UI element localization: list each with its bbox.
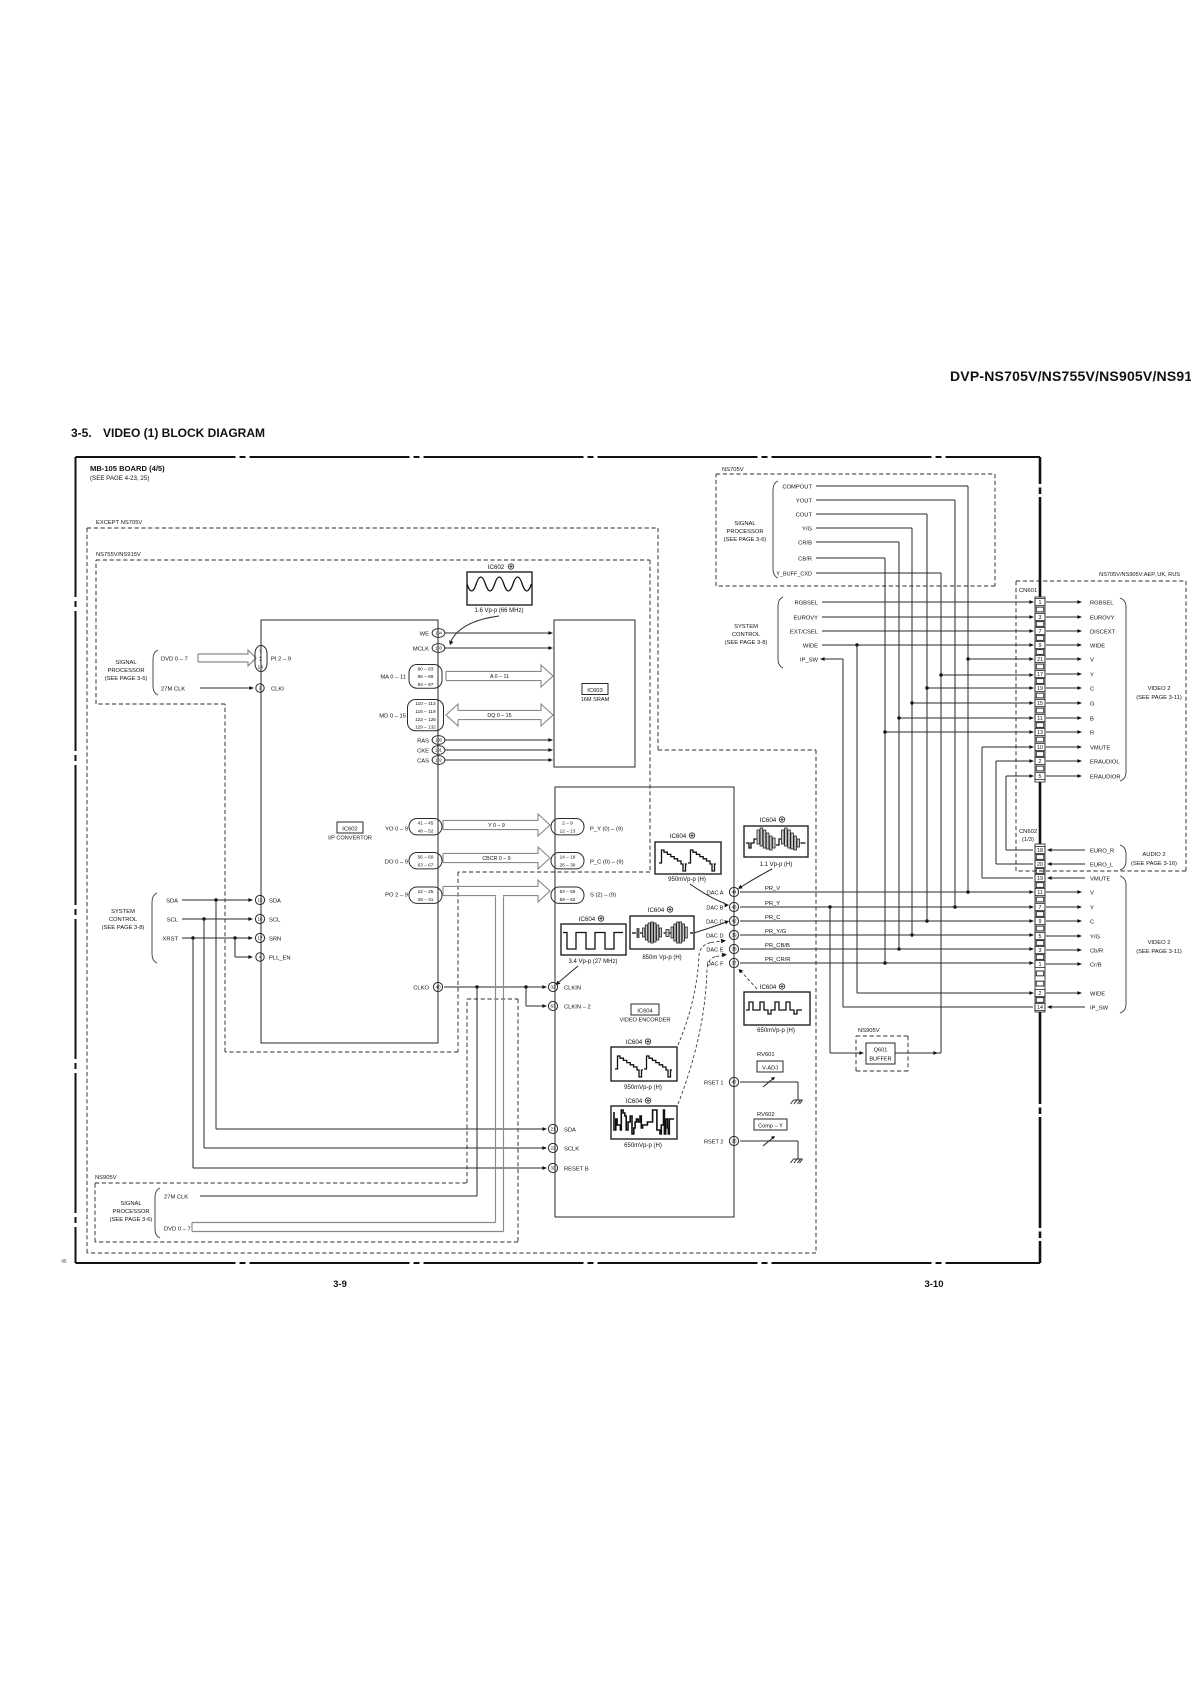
- svg-text:R: R: [1090, 731, 1094, 737]
- svg-text:12 – 13: 12 – 13: [560, 829, 576, 834]
- svg-text:26 – 30: 26 – 30: [560, 863, 576, 868]
- svg-text:G: G: [1090, 702, 1095, 708]
- svg-text:33: 33: [550, 1166, 556, 1171]
- svg-text:2: 2: [1039, 759, 1042, 765]
- svg-text:(SEE PAGE 3-6): (SEE PAGE 3-6): [110, 1217, 153, 1223]
- svg-text:86 – 89: 86 – 89: [418, 674, 434, 679]
- svg-text:7: 7: [1039, 629, 1042, 635]
- svg-text:IC604: IC604: [648, 907, 665, 914]
- svg-text:SDA: SDA: [269, 899, 281, 905]
- svg-text:SDA: SDA: [166, 899, 178, 905]
- svg-text:17: 17: [1037, 672, 1043, 678]
- svg-text:7: 7: [1039, 905, 1042, 911]
- svg-text:(1/3): (1/3): [1022, 837, 1034, 843]
- svg-text:(SEE PAGE 3-8): (SEE PAGE 3-8): [725, 640, 768, 646]
- svg-text:103: 103: [435, 646, 443, 651]
- svg-text:RGBSEL: RGBSEL: [794, 601, 818, 607]
- svg-text:DAC D: DAC D: [706, 934, 723, 940]
- svg-text:COMPOUT: COMPOUT: [782, 485, 812, 491]
- svg-text:58 – 62: 58 – 62: [560, 897, 576, 902]
- svg-text:CLKIN – 2: CLKIN – 2: [564, 1005, 591, 1011]
- svg-text:104: 104: [435, 631, 443, 636]
- svg-text:DISCEXT: DISCEXT: [1090, 630, 1116, 636]
- svg-text:PI 2 – 9: PI 2 – 9: [271, 657, 291, 663]
- svg-text:EXT/CSEL: EXT/CSEL: [790, 630, 819, 636]
- svg-text:SYSTEM: SYSTEM: [111, 909, 135, 915]
- svg-text:(SEE PAGE 3-11): (SEE PAGE 3-11): [1136, 949, 1182, 955]
- svg-text:PROCESSOR: PROCESSOR: [112, 1209, 149, 1215]
- svg-text:7: 7: [259, 649, 262, 655]
- svg-text:BUFFER: BUFFER: [869, 1057, 891, 1063]
- svg-text:3.4 Vp-p (27 MHz): 3.4 Vp-p (27 MHz): [568, 959, 617, 965]
- svg-text:DVD 0 – 7: DVD 0 – 7: [164, 1227, 191, 1233]
- svg-text:CLKIN: CLKIN: [564, 986, 581, 992]
- svg-text:21: 21: [1037, 657, 1043, 663]
- svg-text:110 – 113: 110 – 113: [415, 701, 436, 706]
- svg-text:Y_BUFF_CXD: Y_BUFF_CXD: [776, 572, 812, 578]
- svg-text:CAS: CAS: [417, 759, 429, 765]
- svg-text:B: B: [1090, 717, 1094, 723]
- svg-text:40: 40: [435, 985, 441, 990]
- svg-text:VMUTE: VMUTE: [1090, 877, 1110, 883]
- svg-text:14: 14: [1037, 1005, 1043, 1011]
- svg-text:S (2) – (9): S (2) – (9): [590, 893, 616, 899]
- svg-text:C: C: [1090, 687, 1094, 693]
- svg-text:CN601: CN601: [1019, 588, 1037, 594]
- svg-text:PROCESSOR: PROCESSOR: [726, 529, 763, 535]
- svg-text:(SEE PAGE 3-16): (SEE PAGE 3-16): [1131, 861, 1177, 867]
- svg-text:COUT: COUT: [796, 513, 813, 519]
- svg-text:2 – 9: 2 – 9: [562, 820, 573, 825]
- svg-text:100: 100: [435, 738, 443, 743]
- svg-text:44: 44: [731, 890, 737, 895]
- svg-text:101: 101: [435, 748, 443, 753]
- svg-text:19: 19: [1037, 686, 1043, 692]
- svg-text:13: 13: [1037, 730, 1043, 736]
- svg-text:DVP-NS705V/NS755V/NS905V/NS91: DVP-NS705V/NS755V/NS905V/NS91: [950, 368, 1191, 384]
- svg-text:1: 1: [1039, 962, 1042, 968]
- svg-text:CLKI: CLKI: [271, 687, 284, 693]
- svg-text:WIDE: WIDE: [1090, 992, 1105, 998]
- svg-text:1.1 Vp-p (H): 1.1 Vp-p (H): [760, 862, 793, 868]
- svg-text:V-ADJ: V-ADJ: [762, 1066, 778, 1072]
- svg-text:20: 20: [1037, 862, 1043, 868]
- svg-text:9: 9: [1039, 643, 1042, 649]
- svg-text:16: 16: [257, 917, 263, 922]
- svg-text:5: 5: [1039, 774, 1042, 780]
- svg-text:Y/G: Y/G: [802, 527, 812, 533]
- svg-text:63 – 67: 63 – 67: [418, 863, 434, 868]
- svg-text:32: 32: [550, 985, 556, 990]
- svg-text:CR/B: CR/B: [798, 541, 812, 547]
- svg-text:14 – 18: 14 – 18: [560, 854, 576, 859]
- svg-text:650mVp-p (H): 650mVp-p (H): [757, 1028, 795, 1034]
- svg-text:129 – 132: 129 – 132: [415, 725, 436, 730]
- svg-text:(SEE PAGE 4-23, 25): (SEE PAGE 4-23, 25): [90, 475, 149, 482]
- svg-text:Y: Y: [1090, 673, 1094, 679]
- svg-text:V: V: [1090, 658, 1094, 664]
- svg-text:850m Vp-p (H): 850m Vp-p (H): [642, 955, 681, 961]
- svg-text:IC602: IC602: [488, 564, 505, 571]
- svg-text:18: 18: [1037, 848, 1043, 854]
- svg-text:1: 1: [1039, 600, 1042, 606]
- svg-text:28 – 31: 28 – 31: [418, 897, 434, 902]
- svg-text:SCL: SCL: [269, 918, 281, 924]
- svg-text:PO 2 – 9: PO 2 – 9: [385, 893, 408, 899]
- svg-text:IC604: IC604: [626, 1039, 643, 1046]
- svg-text:11: 11: [1037, 890, 1043, 896]
- svg-text:05: 05: [62, 1259, 68, 1264]
- svg-text:C: C: [1090, 920, 1094, 926]
- svg-text:41 – 45: 41 – 45: [418, 820, 434, 825]
- svg-text:VIDEO 2: VIDEO 2: [1148, 940, 1171, 946]
- svg-text:19: 19: [1037, 876, 1043, 882]
- svg-text:94 – 97: 94 – 97: [418, 682, 434, 687]
- svg-text:CBCR 0 – 9: CBCR 0 – 9: [482, 856, 510, 862]
- svg-text:EUROVY: EUROVY: [794, 616, 819, 622]
- svg-text:2: 2: [259, 686, 262, 691]
- svg-text:11: 11: [1037, 716, 1043, 722]
- svg-text:RV601: RV601: [757, 1052, 775, 1058]
- svg-text:NS705V: NS705V: [722, 467, 744, 473]
- svg-text:48 – 52: 48 – 52: [418, 829, 434, 834]
- svg-text:Cr/B: Cr/B: [1090, 963, 1102, 969]
- svg-text:22 – 25: 22 – 25: [418, 889, 434, 894]
- svg-text:PR_CB/B: PR_CB/B: [765, 943, 790, 949]
- svg-text:950mVp-p (H): 950mVp-p (H): [668, 877, 706, 883]
- svg-text:DAC C: DAC C: [706, 920, 723, 926]
- svg-text:PR_Y/G: PR_Y/G: [765, 929, 787, 935]
- svg-text:NS705V/NS905V:AEP, UK, RUS: NS705V/NS905V:AEP, UK, RUS: [1099, 572, 1180, 578]
- svg-text:4: 4: [259, 955, 262, 960]
- svg-text:EURO_L: EURO_L: [1090, 863, 1114, 869]
- svg-text:Y 0 – 9: Y 0 – 9: [488, 823, 505, 829]
- svg-text:3-10: 3-10: [924, 1279, 943, 1290]
- svg-text:NS755V/NS915V: NS755V/NS915V: [96, 552, 141, 558]
- svg-text:EXCEPT NS705V: EXCEPT NS705V: [96, 520, 142, 526]
- svg-text:VMUTE: VMUTE: [1090, 746, 1110, 752]
- svg-text:SYSTEM: SYSTEM: [734, 624, 758, 630]
- svg-text:IC604: IC604: [760, 984, 777, 991]
- svg-text:IC604: IC604: [760, 817, 777, 824]
- svg-text:I/P CONVERTOR: I/P CONVERTOR: [328, 836, 372, 842]
- svg-text:650mVp-p (H): 650mVp-p (H): [624, 1143, 662, 1149]
- svg-text:950mVp-p (H): 950mVp-p (H): [624, 1085, 662, 1091]
- svg-text:CB/R: CB/R: [798, 557, 812, 563]
- svg-text:80 – 83: 80 – 83: [418, 666, 434, 671]
- svg-text:AUDIO 2: AUDIO 2: [1142, 852, 1165, 858]
- svg-text:10: 10: [1037, 745, 1043, 751]
- svg-text:P_C (0) – (9): P_C (0) – (9): [590, 860, 624, 866]
- svg-text:NS905V: NS905V: [858, 1028, 880, 1034]
- svg-text:DAC B: DAC B: [706, 906, 723, 912]
- svg-text:15: 15: [257, 898, 263, 903]
- svg-text:47: 47: [731, 1080, 737, 1085]
- svg-text:Y: Y: [1090, 906, 1094, 912]
- svg-text:2: 2: [1039, 991, 1042, 997]
- svg-text:37: 37: [731, 961, 737, 966]
- svg-text:16M SRAM: 16M SRAM: [581, 697, 610, 703]
- svg-text:ERAUDIOL: ERAUDIOL: [1090, 760, 1120, 766]
- svg-text:SCL: SCL: [167, 918, 179, 924]
- svg-text:(SEE PAGE 3-6): (SEE PAGE 3-6): [105, 676, 148, 682]
- svg-text:56 – 60: 56 – 60: [418, 854, 434, 859]
- svg-text:5: 5: [1039, 934, 1042, 940]
- svg-text:MB-105 BOARD (4/5): MB-105 BOARD (4/5): [90, 464, 165, 473]
- svg-text:1.6 Vp-p (66 MHz): 1.6 Vp-p (66 MHz): [474, 608, 523, 614]
- svg-text:(SEE PAGE 3-11): (SEE PAGE 3-11): [1136, 695, 1182, 701]
- svg-text:MA 0 – 11: MA 0 – 11: [380, 675, 406, 681]
- svg-text:PROCESSOR: PROCESSOR: [107, 668, 144, 674]
- svg-text:42: 42: [731, 919, 737, 924]
- svg-text:38: 38: [731, 947, 737, 952]
- svg-text:116 – 119: 116 – 119: [415, 709, 436, 714]
- svg-text:P_Y (0) – (9): P_Y (0) – (9): [590, 827, 623, 833]
- svg-text:3-5.: 3-5.: [71, 426, 92, 440]
- svg-text:3: 3: [1039, 615, 1042, 621]
- svg-text:RGBSEL: RGBSEL: [1090, 601, 1114, 607]
- svg-text:Q601: Q601: [874, 1048, 888, 1054]
- svg-text:RV602: RV602: [757, 1112, 775, 1118]
- svg-text:YO 0 – 9: YO 0 – 9: [385, 827, 408, 833]
- svg-text:DAC F: DAC F: [707, 962, 724, 968]
- svg-text:WIDE: WIDE: [1090, 644, 1105, 650]
- svg-text:VIDEO (1) BLOCK DIAGRAM: VIDEO (1) BLOCK DIAGRAM: [103, 426, 265, 440]
- svg-text:NS905V: NS905V: [95, 1175, 117, 1181]
- svg-text:122 – 125: 122 – 125: [415, 717, 436, 722]
- svg-text:15: 15: [1037, 701, 1043, 707]
- svg-text:WE: WE: [420, 632, 429, 638]
- svg-text:VIDEO ENCORDER: VIDEO ENCORDER: [620, 1018, 671, 1024]
- svg-text:(SEE PAGE 3-8): (SEE PAGE 3-8): [102, 925, 145, 931]
- svg-text:WIDE: WIDE: [803, 644, 818, 650]
- svg-text:DAC A: DAC A: [707, 891, 724, 897]
- svg-text:SIGNAL: SIGNAL: [734, 521, 756, 527]
- svg-text:21: 21: [550, 1127, 556, 1132]
- svg-text:EUROVY: EUROVY: [1090, 616, 1115, 622]
- svg-text:CONTROL: CONTROL: [732, 632, 761, 638]
- svg-text:IC603: IC603: [587, 688, 602, 694]
- svg-text:IP_SW: IP_SW: [800, 658, 819, 664]
- svg-text:IC604: IC604: [626, 1098, 643, 1105]
- svg-text:PLL_EN: PLL_EN: [269, 956, 291, 962]
- svg-text:Y/G: Y/G: [1090, 935, 1100, 941]
- svg-text:43: 43: [731, 905, 737, 910]
- svg-text:MCLK: MCLK: [413, 647, 429, 653]
- svg-text:14: 14: [257, 665, 263, 671]
- svg-text:39: 39: [731, 933, 737, 938]
- svg-text:PR_C: PR_C: [765, 915, 780, 921]
- svg-text:SIGNAL: SIGNAL: [120, 1201, 142, 1207]
- svg-text:Comp – Y: Comp – Y: [758, 1124, 783, 1130]
- svg-text:3-9: 3-9: [333, 1279, 347, 1290]
- svg-text:CLKO: CLKO: [413, 986, 429, 992]
- svg-text:17: 17: [257, 936, 263, 941]
- svg-text:Cb/R: Cb/R: [1090, 949, 1103, 955]
- svg-text:EURO_R: EURO_R: [1090, 849, 1114, 855]
- svg-text:V: V: [1090, 891, 1094, 897]
- svg-text:25: 25: [731, 1139, 737, 1144]
- svg-text:XRST: XRST: [163, 937, 179, 943]
- svg-text:3: 3: [1039, 948, 1042, 954]
- svg-text:IC604: IC604: [637, 1009, 653, 1015]
- svg-text:PR_Y: PR_Y: [765, 901, 780, 907]
- svg-text:VIDEO 2: VIDEO 2: [1148, 686, 1171, 692]
- svg-text:RAS: RAS: [417, 739, 429, 745]
- svg-text:IC602: IC602: [342, 827, 357, 833]
- svg-text:RESET B: RESET B: [564, 1167, 589, 1173]
- svg-text:ERAUDIOR: ERAUDIOR: [1090, 775, 1121, 781]
- svg-text:(SEE PAGE 3-6): (SEE PAGE 3-6): [724, 537, 767, 543]
- svg-text:SRN: SRN: [269, 937, 281, 943]
- svg-text:RSET 1: RSET 1: [704, 1081, 723, 1087]
- svg-text:PR_V: PR_V: [765, 886, 780, 892]
- svg-text:SCLK: SCLK: [564, 1147, 579, 1153]
- svg-text:CN602: CN602: [1019, 829, 1037, 835]
- svg-text:YOUT: YOUT: [796, 499, 813, 505]
- svg-text:27M CLK: 27M CLK: [161, 687, 185, 693]
- svg-text:A 0 – 11: A 0 – 11: [490, 674, 509, 680]
- svg-text:DO 0 – 9: DO 0 – 9: [385, 860, 408, 866]
- svg-text:IC604: IC604: [579, 916, 596, 923]
- svg-text:IP_SW: IP_SW: [1090, 1006, 1109, 1012]
- svg-text:PR_CR/R: PR_CR/R: [765, 957, 790, 963]
- svg-text:DAC E: DAC E: [706, 948, 723, 954]
- svg-text:22: 22: [550, 1146, 556, 1151]
- svg-text:MD 0 – 15: MD 0 – 15: [379, 714, 406, 720]
- svg-text:SIGNAL: SIGNAL: [115, 660, 137, 666]
- svg-text:DVD 0 – 7: DVD 0 – 7: [161, 657, 188, 663]
- svg-text:DQ 0 – 15: DQ 0 – 15: [487, 713, 511, 719]
- svg-text:53 – 55: 53 – 55: [560, 889, 576, 894]
- svg-text:IC604: IC604: [670, 833, 687, 840]
- svg-text:CKE: CKE: [417, 749, 429, 755]
- svg-text:102: 102: [435, 758, 443, 763]
- svg-text:27M CLK: 27M CLK: [164, 1195, 188, 1201]
- svg-text:SDA: SDA: [564, 1128, 576, 1134]
- svg-text:63: 63: [550, 1004, 556, 1009]
- svg-text:9: 9: [1039, 919, 1042, 925]
- svg-text:CONTROL: CONTROL: [109, 917, 138, 923]
- svg-text:RSET 2: RSET 2: [704, 1140, 723, 1146]
